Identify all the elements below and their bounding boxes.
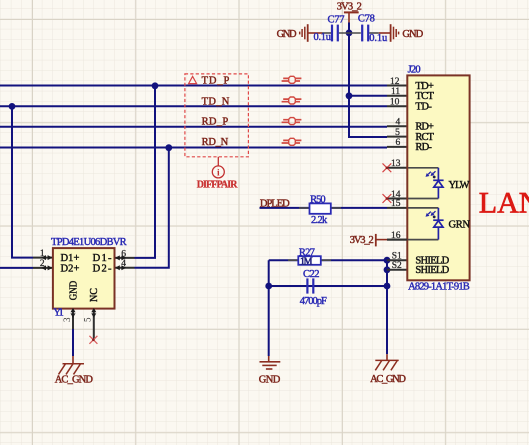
- svg-text:3V3_2: 3V3_2: [350, 235, 374, 246]
- svg-text:2.2k: 2.2k: [311, 215, 328, 226]
- svg-text:0.1u: 0.1u: [314, 32, 332, 43]
- svg-text:S1: S1: [392, 252, 402, 262]
- svg-text:GRN: GRN: [449, 219, 471, 230]
- svg-text:A829-1A1T-91B: A829-1A1T-91B: [408, 281, 470, 292]
- svg-text:S2: S2: [392, 261, 402, 271]
- svg-text:11: 11: [391, 87, 400, 97]
- svg-text:1: 1: [40, 249, 45, 259]
- svg-text:GND: GND: [277, 29, 297, 40]
- svg-text:10: 10: [390, 98, 400, 108]
- svg-text:RD_P: RD_P: [202, 117, 229, 128]
- svg-text:J20: J20: [408, 64, 421, 75]
- svg-text:RD+: RD+: [415, 122, 434, 133]
- svg-text:TD_N: TD_N: [202, 96, 230, 107]
- svg-text:3V3_2: 3V3_2: [337, 2, 362, 13]
- svg-text:C78: C78: [358, 14, 375, 25]
- svg-text:4: 4: [396, 118, 401, 128]
- svg-text:SHIELD: SHIELD: [415, 265, 449, 276]
- svg-text:D2-: D2-: [93, 263, 112, 274]
- svg-text:4700pF: 4700pF: [300, 296, 327, 307]
- svg-text:LAN: LAN: [479, 187, 529, 220]
- svg-text:6: 6: [121, 249, 126, 259]
- svg-text:TD-: TD-: [415, 102, 432, 113]
- svg-text:15: 15: [391, 199, 401, 209]
- svg-text:5: 5: [395, 128, 400, 138]
- svg-text:2: 2: [40, 259, 45, 269]
- svg-text:12: 12: [390, 77, 400, 87]
- svg-text:i: i: [217, 168, 220, 178]
- svg-text:C77: C77: [328, 15, 345, 26]
- svg-text:16: 16: [391, 231, 401, 241]
- svg-text:RD-: RD-: [415, 142, 432, 153]
- svg-text:4: 4: [121, 259, 126, 269]
- svg-text:13: 13: [391, 159, 401, 169]
- svg-text:R50: R50: [310, 195, 326, 206]
- svg-text:Y1: Y1: [53, 308, 63, 319]
- svg-text:AC_GND: AC_GND: [370, 374, 406, 385]
- svg-text:6: 6: [396, 138, 401, 148]
- svg-text:YLW: YLW: [449, 180, 470, 191]
- svg-text:DIFFPAIR: DIFFPAIR: [197, 179, 239, 190]
- svg-text:TD_P: TD_P: [202, 76, 230, 87]
- svg-text:3: 3: [62, 317, 72, 322]
- svg-text:GND: GND: [402, 29, 423, 40]
- svg-text:0.1u: 0.1u: [369, 33, 388, 44]
- svg-text:1M: 1M: [300, 256, 313, 267]
- svg-text:TPD4E1U06DBVR: TPD4E1U06DBVR: [51, 237, 127, 248]
- svg-text:GND: GND: [69, 280, 80, 300]
- svg-text:D2+: D2+: [61, 263, 80, 274]
- svg-text:NC: NC: [89, 288, 100, 302]
- svg-text:C22: C22: [303, 269, 320, 280]
- svg-text:DPLED: DPLED: [260, 198, 290, 209]
- svg-text:5: 5: [83, 317, 93, 322]
- svg-text:RD_N: RD_N: [202, 137, 229, 148]
- svg-text:TCT: TCT: [415, 91, 434, 102]
- svg-text:AC_GND: AC_GND: [55, 375, 94, 386]
- svg-text:GND: GND: [259, 374, 281, 385]
